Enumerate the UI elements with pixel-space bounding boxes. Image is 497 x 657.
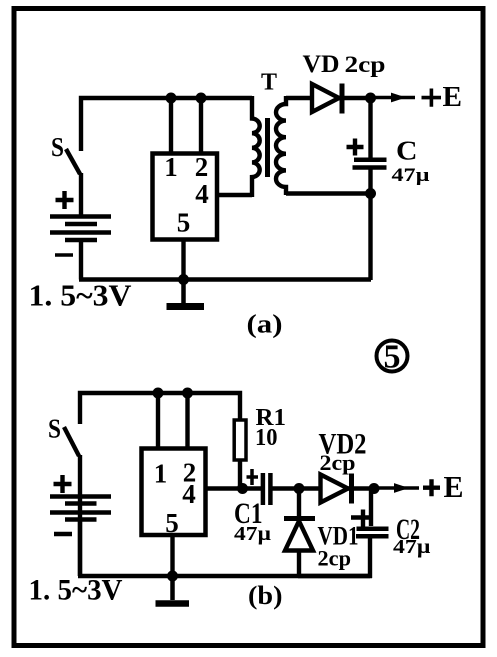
node pin1 rail (b) (153, 388, 164, 399)
capacitor C plus label (a) (347, 139, 364, 156)
node output (b) (369, 483, 380, 494)
svg-text:10: 10 (255, 425, 278, 451)
wire pin4 to transformer (a) (219, 193, 252, 197)
wire output arrow (b) (379, 486, 419, 490)
diode VD2 (321, 475, 349, 503)
diode VD (a) (312, 84, 339, 112)
wire secondary top to diode (a) (286, 96, 312, 100)
transformer T secondary winding (276, 96, 286, 195)
battery plus label (b) (54, 475, 72, 493)
wire node to capacitor (a) (368, 98, 372, 158)
node pin1 rail (a) (166, 93, 177, 104)
capacitor C1 plus label (247, 469, 259, 485)
wire C2 to bottom rail (b) (298, 538, 372, 578)
node pin2 rail (b) (182, 388, 193, 399)
capacitor C2 (357, 527, 389, 532)
svg-text:1: 1 (164, 152, 178, 182)
switch blade (a) (66, 149, 80, 174)
svg-text:1. 5~3V: 1. 5~3V (29, 278, 133, 313)
node output (a) (365, 93, 376, 104)
svg-text:47µ: 47µ (234, 523, 272, 545)
svg-text:S: S (51, 132, 64, 162)
switch blade (b) (64, 427, 79, 456)
wire VD1 anode to bottom rail (b) (297, 549, 301, 576)
wire capacitor to bottom node (a) (368, 169, 372, 196)
battery minus label (b) (54, 532, 72, 537)
IC U1 (a) (153, 154, 218, 240)
svg-text:2cp: 2cp (320, 450, 356, 475)
svg-text:C: C (396, 136, 418, 166)
node VD1 VD2 (b) (294, 483, 305, 494)
wire pin5 to bottom rail (b) (170, 535, 174, 575)
wire C1 to node (b) (272, 486, 320, 490)
node ground junction (b) (167, 571, 178, 582)
wire node down to bottom rail (a) (368, 194, 372, 281)
wire VD2 to node (b) (345, 486, 374, 490)
wire node to C2 (b) (369, 489, 373, 527)
wire battery to bottom rail (a) (79, 239, 83, 280)
wire pin2 to top rail (b) (185, 393, 189, 448)
svg-text:2cp: 2cp (345, 52, 386, 77)
svg-text:47µ: 47µ (393, 536, 431, 558)
transformer T core (265, 118, 270, 177)
ground (a) (181, 281, 186, 303)
wire bottom rail (a) (79, 277, 371, 281)
svg-text:2: 2 (195, 152, 209, 182)
svg-text:5: 5 (165, 508, 179, 538)
battery BT (b) (50, 497, 111, 520)
svg-text:E: E (443, 81, 463, 113)
wire switch to battery (b) (78, 455, 82, 576)
figure number 5 (377, 341, 408, 372)
wire battery to bottom rail (b) (78, 518, 82, 576)
transformer T primary winding (252, 96, 260, 197)
svg-text:(b): (b) (248, 581, 283, 610)
capacitor C (a) (354, 158, 387, 163)
svg-text:47µ: 47µ (392, 165, 430, 186)
svg-text:1: 1 (154, 459, 168, 489)
node R1 pin4 (b) (237, 483, 248, 494)
capacitor C1 (261, 473, 266, 505)
svg-text:T: T (261, 70, 277, 96)
svg-text:S: S (48, 414, 61, 444)
svg-text:4: 4 (195, 179, 209, 209)
output +E label (a) (422, 89, 442, 107)
wire pin1 to top rail (a) (169, 98, 173, 153)
battery minus label (a) (55, 253, 73, 257)
capacitor C2 plus label (351, 510, 371, 527)
svg-text:E: E (444, 469, 464, 504)
wire pin5 to bottom rail (a) (181, 241, 185, 279)
battery BT (a) (50, 217, 111, 241)
wire diode to node (a) (337, 96, 371, 100)
node ground junction (a) (178, 274, 189, 285)
wire pin4 (b) (205, 486, 262, 490)
diode VD1 (284, 516, 315, 521)
svg-text:2cp: 2cp (318, 546, 352, 571)
node secondary bottom (a) (365, 188, 376, 199)
wire pin2 to top rail (a) (199, 98, 203, 153)
wire output arrow (a) (375, 96, 415, 100)
wire bottom rail (b) (78, 574, 370, 578)
wire pin1 to top rail (b) (156, 393, 160, 448)
ground (b) (170, 577, 175, 600)
resistor R1 (234, 420, 246, 460)
wire top rail (a) (81, 98, 252, 151)
svg-text:5: 5 (177, 208, 191, 238)
svg-text:VD: VD (303, 51, 340, 78)
node pin2 rail (a) (196, 93, 207, 104)
wire VD1 cathode (b) (297, 489, 301, 519)
wire switch to battery (a) (79, 173, 83, 218)
svg-text:(a): (a) (247, 310, 283, 339)
battery plus label (a) (56, 191, 74, 209)
wire top rail (b) (80, 393, 240, 424)
IC U1 (b) (142, 449, 206, 536)
svg-text:1. 5~3V: 1. 5~3V (29, 574, 123, 607)
svg-text:5: 5 (384, 339, 401, 376)
wire R1 to node (b) (238, 460, 242, 489)
wire secondary bottom (a) (286, 191, 371, 195)
svg-text:4: 4 (182, 479, 196, 509)
output +E label (b) (423, 479, 440, 496)
